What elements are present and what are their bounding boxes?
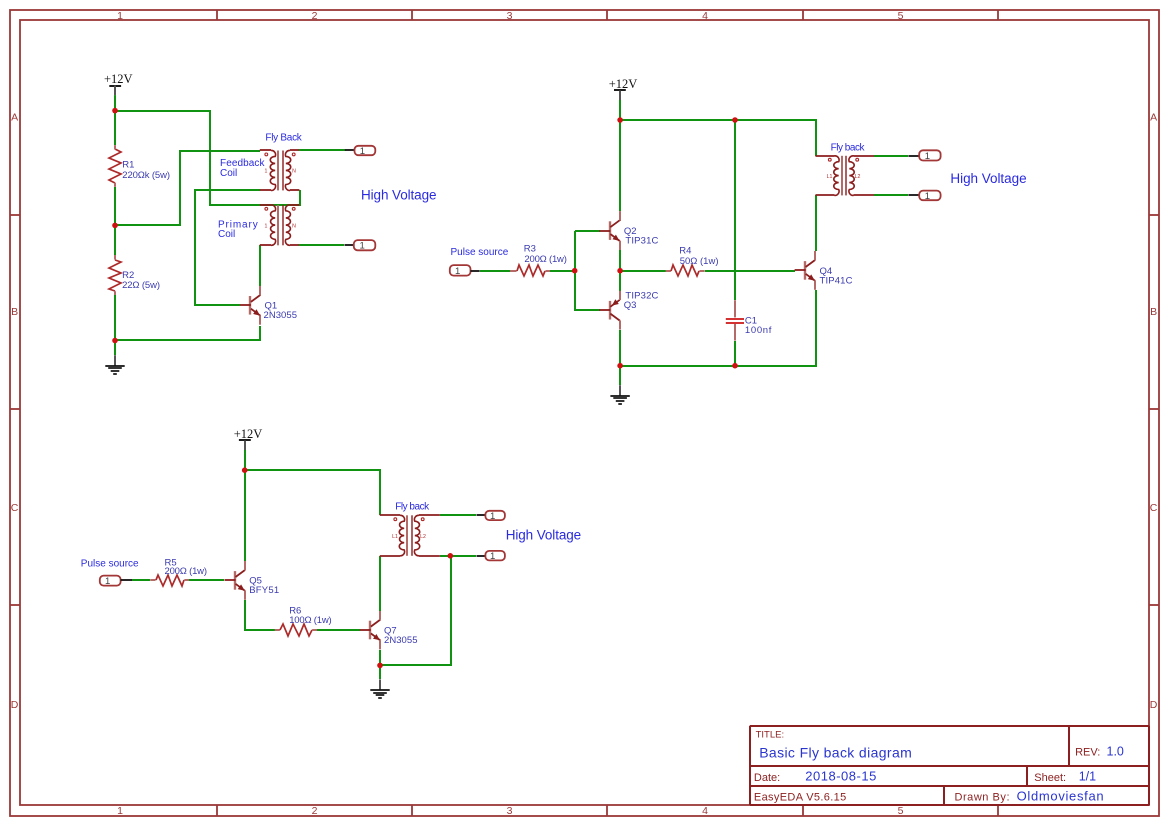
svg-text:22Ω (5w): 22Ω (5w) [122, 280, 160, 291]
svg-text:220Ωk (5w): 220Ωk (5w) [122, 170, 170, 181]
svg-text:C: C [11, 502, 19, 514]
svg-text:3: 3 [507, 10, 513, 22]
svg-text:TIP31C: TIP31C [625, 236, 658, 247]
svg-text:1/1: 1/1 [1079, 769, 1096, 783]
svg-text:High Voltage: High Voltage [506, 528, 582, 543]
svg-text:Pulse source: Pulse source [451, 247, 509, 258]
svg-text:N: N [292, 223, 296, 229]
svg-text:1: 1 [925, 191, 930, 202]
svg-text:Oldmoviesfan: Oldmoviesfan [1017, 789, 1104, 804]
svg-text:100nf: 100nf [745, 325, 772, 336]
svg-text:Fly back: Fly back [831, 143, 866, 154]
svg-text:BFY51: BFY51 [249, 585, 279, 596]
svg-text:1: 1 [490, 551, 495, 562]
svg-text:Fly back: Fly back [395, 502, 430, 513]
svg-text:5: 5 [898, 10, 904, 22]
svg-text:Coil: Coil [220, 168, 237, 179]
svg-text:+12V: +12V [104, 72, 133, 86]
svg-text:D: D [11, 699, 19, 711]
svg-text:1: 1 [359, 241, 364, 252]
svg-text:Basic Fly back diagram: Basic Fly back diagram [759, 745, 912, 761]
svg-text:Sheet:: Sheet: [1034, 772, 1066, 784]
svg-text:REV:: REV: [1075, 746, 1100, 758]
svg-text:A: A [1150, 112, 1157, 124]
svg-text:Fly Back: Fly Back [265, 132, 302, 143]
svg-text:2: 2 [312, 805, 318, 817]
svg-text:L1: L1 [392, 534, 398, 540]
svg-text:L1: L1 [827, 174, 833, 180]
svg-text:B: B [11, 306, 18, 318]
svg-text:+12V: +12V [234, 427, 263, 441]
svg-text:1: 1 [117, 805, 123, 817]
svg-text:1: 1 [925, 151, 930, 162]
svg-text:R3: R3 [524, 244, 536, 255]
svg-text:200Ω (1w): 200Ω (1w) [524, 254, 567, 265]
svg-text:High Voltage: High Voltage [361, 188, 437, 203]
svg-text:TITLE:: TITLE: [756, 730, 785, 741]
svg-text:200Ω (1w): 200Ω (1w) [165, 566, 208, 577]
svg-text:Date:: Date: [754, 772, 780, 784]
svg-text:R1: R1 [122, 159, 134, 170]
svg-text:2N3055: 2N3055 [384, 635, 418, 646]
svg-text:1: 1 [360, 146, 365, 157]
svg-text:100Ω (1w): 100Ω (1w) [289, 615, 332, 626]
svg-text:4: 4 [702, 805, 708, 817]
svg-text:B: B [1150, 306, 1157, 318]
svg-text:Q3: Q3 [624, 300, 637, 311]
svg-text:2N3055: 2N3055 [264, 310, 298, 321]
svg-text:1.0: 1.0 [1107, 744, 1124, 758]
svg-text:TIP41C: TIP41C [820, 275, 853, 286]
svg-text:Pulse source: Pulse source [81, 559, 139, 570]
svg-text:2: 2 [312, 10, 318, 22]
svg-text:3: 3 [507, 805, 513, 817]
svg-text:C: C [1150, 502, 1158, 514]
svg-text:1: 1 [265, 169, 268, 175]
svg-text:L2: L2 [855, 174, 861, 180]
svg-text:50Ω (1w): 50Ω (1w) [680, 256, 719, 267]
svg-text:1: 1 [105, 576, 110, 587]
svg-text:EasyEDA V5.6.15: EasyEDA V5.6.15 [754, 792, 846, 804]
svg-text:1: 1 [117, 10, 123, 22]
svg-text:High Voltage: High Voltage [950, 171, 1026, 186]
svg-text:Drawn By:: Drawn By: [955, 792, 1010, 804]
svg-text:N: N [292, 169, 296, 175]
svg-text:Coil: Coil [218, 229, 235, 240]
svg-text:1: 1 [490, 511, 495, 522]
svg-text:5: 5 [898, 805, 904, 817]
svg-text:D: D [1150, 699, 1158, 711]
svg-text:1: 1 [265, 223, 268, 229]
svg-text:A: A [11, 112, 18, 124]
svg-text:4: 4 [702, 10, 708, 22]
svg-text:1: 1 [455, 266, 460, 277]
svg-text:2018-08-15: 2018-08-15 [805, 768, 876, 783]
svg-text:+12V: +12V [609, 77, 638, 91]
svg-text:L2: L2 [420, 534, 426, 540]
